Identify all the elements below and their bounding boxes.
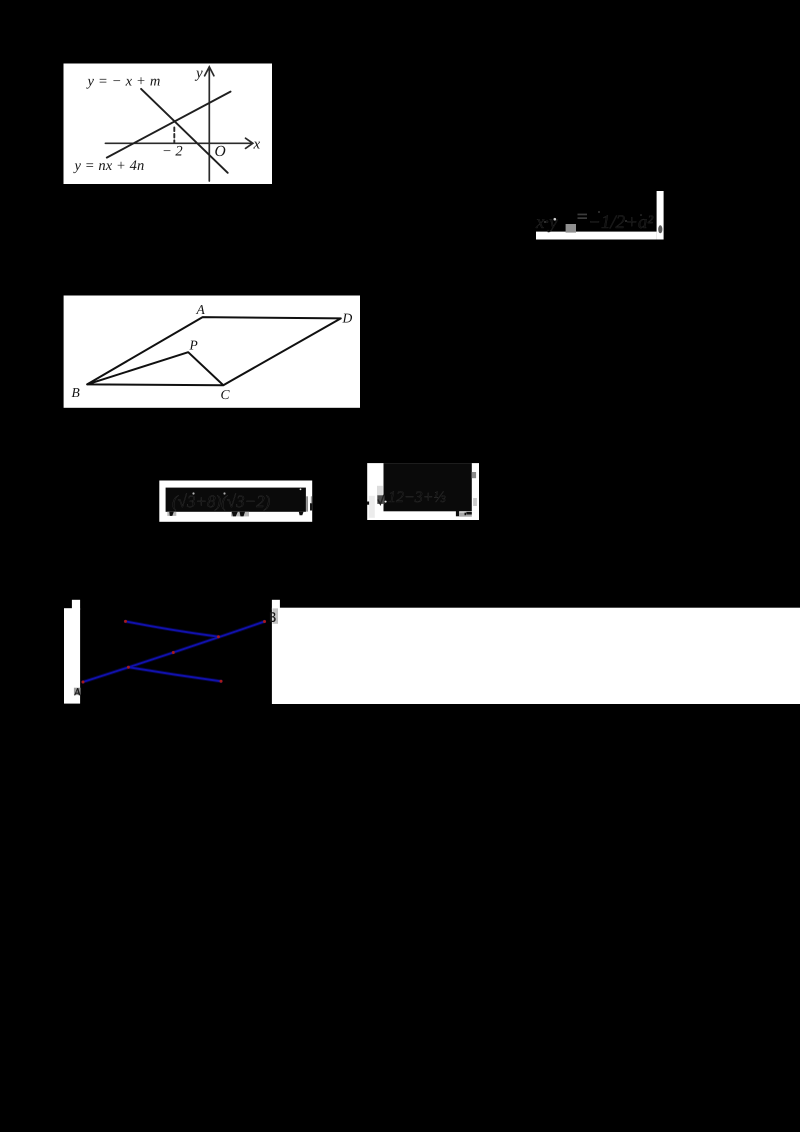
svg-text:12−3+⅓: 12−3+⅓ [388, 489, 446, 506]
svg-text:B: B [72, 385, 80, 400]
svg-text:A: A [196, 302, 206, 317]
svg-text:y = − x + m: y = − x + m [86, 74, 161, 90]
svg-text:D: D [342, 311, 353, 326]
svg-text:x: x [253, 137, 261, 153]
svg-text:C: C [221, 387, 231, 402]
svg-text:x·y: x·y [535, 212, 558, 233]
svg-text:y: y [194, 66, 203, 82]
svg-text:y = nx + 4n: y = nx + 4n [73, 158, 145, 174]
svg-text:−1/2+a²: −1/2+a² [588, 212, 653, 233]
svg-text:P: P [189, 338, 198, 353]
svg-text:(√3+8)(√3−2): (√3+8)(√3−2) [172, 492, 271, 511]
svg-text:O: O [215, 143, 226, 160]
svg-text:− 2: − 2 [162, 144, 183, 160]
